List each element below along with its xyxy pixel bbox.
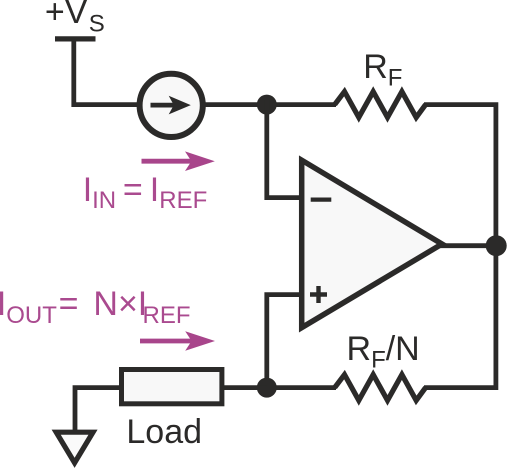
IOUT current arrowhead [185, 331, 215, 351]
wire +VS to current source [74, 39, 142, 105]
resistor RF zigzag [335, 92, 426, 118]
current source I1 circle [140, 74, 203, 137]
IIN current arrowhead [185, 151, 215, 171]
load resistor box [122, 370, 222, 404]
wire right rail to RF/N bottom corner [424, 244, 496, 388]
wire RF to right rail top corner [424, 105, 496, 247]
op-amp inverting input minus sign [311, 198, 332, 202]
node A (summing junction dot) [257, 95, 277, 115]
svg-text:+VS: +VS [45, 0, 105, 37]
svg-text:IIN=IREF: IIN=IREF [83, 171, 208, 214]
current source arrow shaft [151, 103, 176, 108]
wire op-amp output to node B [440, 243, 496, 248]
svg-text:RF/N: RF/N [347, 330, 420, 374]
op-amp non-inverting input plus sign [310, 286, 327, 303]
op-amp U1 triangle [302, 160, 442, 327]
wire node A to inverting input [267, 100, 301, 198]
current source arrowhead [169, 96, 191, 115]
wire current source to node A and RF [201, 102, 337, 107]
wire node C to RF/N [267, 385, 336, 390]
node B (output dot) [486, 235, 507, 256]
svg-text:IOUT=N×IREF: IOUT=N×IREF [0, 285, 190, 329]
resistor RF/N zigzag [335, 375, 426, 401]
IOUT current arrow shaft [140, 339, 193, 344]
svg-text:RF: RF [363, 48, 402, 92]
ground symbol [56, 432, 93, 463]
IIN current arrow shaft [142, 159, 194, 164]
node C (load junction dot) [257, 378, 277, 398]
wire non-inverting input to node C [267, 295, 301, 390]
wire load to node C [222, 385, 267, 390]
svg-text:Load: Load [126, 413, 202, 451]
wire load to ground [75, 388, 122, 431]
+VS supply terminal bar [55, 36, 96, 41]
